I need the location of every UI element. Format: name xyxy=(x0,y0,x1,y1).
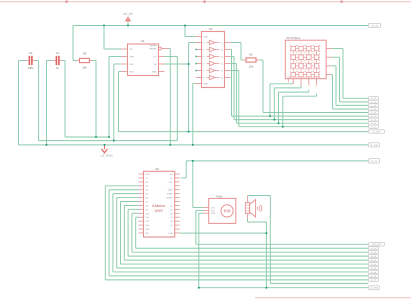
svg-text:6Y: 6Y xyxy=(202,77,204,79)
svg-text:U2_D10: U2_D10 xyxy=(370,247,377,249)
svg-text:U2_D5: U2_D5 xyxy=(371,267,377,269)
svg-text:R3: R3 xyxy=(83,52,87,55)
svg-text:A2: A2 xyxy=(170,213,172,215)
svg-text:U2_D2: U2_D2 xyxy=(371,279,377,281)
svg-text:2A: 2A xyxy=(221,49,224,51)
svg-text:D11: D11 xyxy=(146,216,149,218)
svg-text:A3: A3 xyxy=(170,216,172,218)
svg-text:D2: D2 xyxy=(146,181,148,183)
svg-text:D5: D5 xyxy=(146,193,148,195)
svg-text:RESET: RESET xyxy=(166,197,172,199)
svg-text:D9: D9 xyxy=(146,209,148,211)
svg-text:U2_D5: U2_D5 xyxy=(371,112,377,114)
svg-text:PIR1: PIR1 xyxy=(216,195,222,198)
svg-text:10k: 10k xyxy=(249,65,254,68)
svg-text:VDD: VDD xyxy=(204,36,208,38)
svg-text:SCL: SCL xyxy=(146,232,150,234)
svg-text:4Y: 4Y xyxy=(202,63,204,65)
svg-text:1A: 1A xyxy=(221,42,224,44)
svg-text:OUT: OUT xyxy=(211,210,215,212)
svg-text:GND: GND xyxy=(204,83,209,85)
svg-text:D10: D10 xyxy=(146,213,149,215)
svg-text:IOREF: IOREF xyxy=(167,193,173,195)
svg-text:OUT: OUT xyxy=(130,71,134,74)
svg-text:A1: A1 xyxy=(170,209,172,211)
svg-text:Arduino: Arduino xyxy=(152,204,165,208)
svg-text:5V: 5V xyxy=(170,177,173,179)
svg-text:U2: U2 xyxy=(155,167,159,171)
svg-text:3A: 3A xyxy=(221,56,224,58)
svg-text:U2_A1: U2_A1 xyxy=(371,119,376,121)
svg-text:U2_D6: U2_D6 xyxy=(371,108,377,110)
svg-text:U2_D9: U2_D9 xyxy=(371,251,377,253)
svg-text:U2_D4: U2_D4 xyxy=(371,271,377,273)
svg-text:VIN: VIN xyxy=(170,173,173,175)
svg-text:D4: D4 xyxy=(146,189,148,191)
svg-text:DIS: DIS xyxy=(130,63,134,66)
svg-text:5A: 5A xyxy=(221,70,224,72)
svg-text:U1: U1 xyxy=(141,39,145,43)
svg-text:3Y: 3Y xyxy=(202,56,204,58)
svg-text:U2_D3: U2_D3 xyxy=(371,275,377,277)
svg-text:6A: 6A xyxy=(221,77,224,79)
svg-text:A4: A4 xyxy=(170,220,172,222)
svg-text:D12: D12 xyxy=(146,220,149,222)
svg-text:3.3V: 3.3V xyxy=(169,181,173,183)
svg-text:U2_A3: U2_A3 xyxy=(371,126,376,128)
svg-text:UNO: UNO xyxy=(154,209,162,213)
svg-text:AREF: AREF xyxy=(168,189,173,191)
svg-text:D7: D7 xyxy=(146,201,148,203)
svg-text:100n: 100n xyxy=(27,67,33,70)
svg-text:U2_3V: U2_3V xyxy=(123,12,133,16)
svg-text:U2_D9: U2_D9 xyxy=(371,97,377,99)
svg-text:PIR1_OUT: PIR1_OUT xyxy=(372,243,381,245)
svg-text:U2_D7: U2_D7 xyxy=(371,259,377,261)
svg-text:D13: D13 xyxy=(146,224,149,226)
svg-text:R2: R2 xyxy=(249,53,253,56)
svg-text:SDA: SDA xyxy=(146,228,150,230)
svg-text:U1_OUT: U1_OUT xyxy=(373,131,381,133)
svg-text:CV: CV xyxy=(154,56,157,59)
svg-text:U2_D6: U2_D6 xyxy=(371,263,377,265)
svg-text:U5: U5 xyxy=(209,27,213,31)
svg-text:5Y: 5Y xyxy=(202,70,204,72)
svg-text:U2_GND: U2_GND xyxy=(370,144,378,146)
svg-text:U2_D8: U2_D8 xyxy=(371,101,377,103)
svg-text:C2: C2 xyxy=(29,52,33,55)
svg-text:RESET: RESET xyxy=(150,48,157,51)
svg-text:U2_A2: U2_A2 xyxy=(371,122,376,124)
svg-text:D6: D6 xyxy=(146,197,148,199)
svg-text:10k: 10k xyxy=(82,66,87,69)
svg-text:A5: A5 xyxy=(170,224,172,226)
svg-text:THR: THR xyxy=(130,56,134,59)
svg-text:TH: TH xyxy=(154,63,157,66)
svg-text:D3: D3 xyxy=(146,185,148,187)
svg-text:U2_5V: U2_5V xyxy=(371,160,378,163)
svg-text:U2_D8: U2_D8 xyxy=(371,255,377,257)
svg-text:U2_GND: U2_GND xyxy=(370,287,378,289)
svg-text:TX: TX xyxy=(146,177,148,179)
svg-text:U2_D7: U2_D7 xyxy=(371,105,377,107)
svg-text:4A: 4A xyxy=(221,63,224,65)
svg-text:U2_A0: U2_A0 xyxy=(371,115,376,117)
svg-text:KEYPAD1: KEYPAD1 xyxy=(287,36,301,40)
svg-text:A0: A0 xyxy=(170,205,172,207)
svg-text:GND: GND xyxy=(168,232,172,234)
svg-text:D8: D8 xyxy=(146,205,148,207)
svg-text:1Y: 1Y xyxy=(202,42,204,44)
svg-text:PIR: PIR xyxy=(224,209,231,214)
svg-text:GND: GND xyxy=(152,71,157,74)
svg-text:U2_3V: U2_3V xyxy=(371,24,378,27)
svg-text:2Y: 2Y xyxy=(202,49,204,51)
svg-text:GND: GND xyxy=(211,212,215,214)
svg-text:VCC: VCC xyxy=(211,207,215,209)
svg-text:TR: TR xyxy=(130,48,133,51)
svg-text:C1: C1 xyxy=(56,52,60,55)
svg-text:U2_GND: U2_GND xyxy=(101,154,113,158)
svg-text:RX0: RX0 xyxy=(146,173,150,175)
svg-text:1u: 1u xyxy=(56,67,59,70)
